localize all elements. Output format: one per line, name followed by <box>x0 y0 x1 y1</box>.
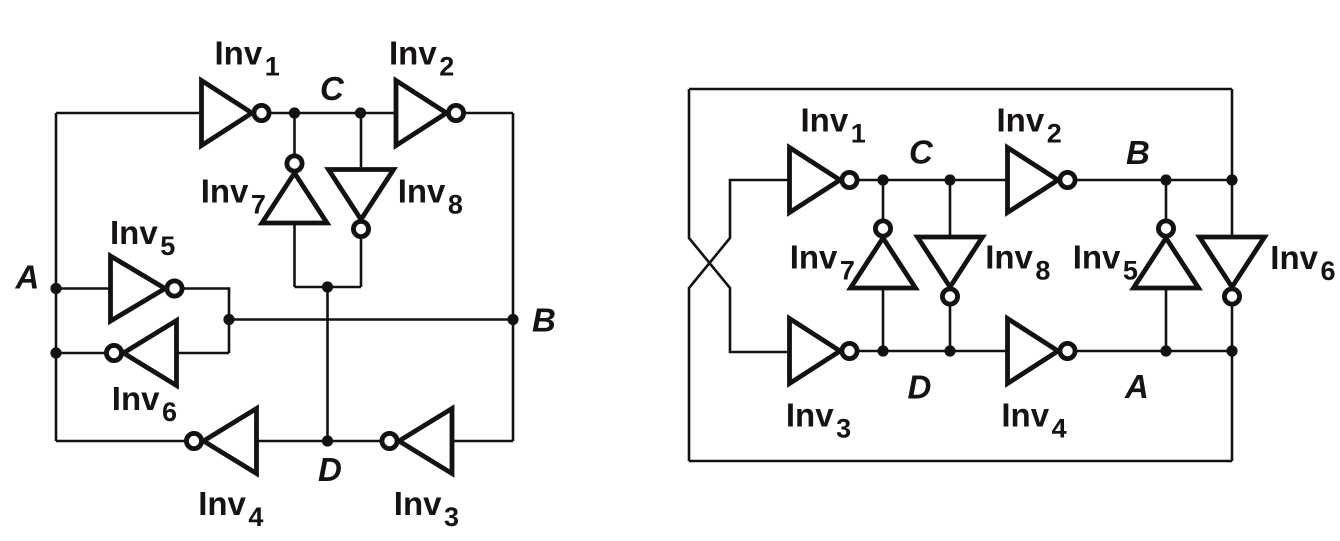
inverter Inv6 (leftward, bubble on left) <box>106 321 176 386</box>
wire: Inv7 base down to connector <box>293 223 296 287</box>
wire: right edge upper segment (B) <box>1231 89 1234 180</box>
wire: node C rail (Inv1 out to Inv2 in) <box>859 179 1008 182</box>
inverter Inv6 (right circuit, downward) <box>1200 237 1265 304</box>
node C junction dot (to Inv7) <box>289 107 300 118</box>
node A junction dot <box>50 283 61 294</box>
wire: Inv5 bubble up to node B rail <box>1165 180 1168 219</box>
wire: node A rail (Inv4 out to right edge) <box>1077 350 1232 353</box>
node A junction dot (right edge) <box>1226 345 1237 356</box>
wire: node C segment from Inv1 output to Inv2 input <box>271 112 396 115</box>
node B junction dot (right edge) <box>1226 174 1237 185</box>
wire: right vertical rail (node B net down to Inv3 input) <box>512 113 515 441</box>
node C junction dot (to Inv8) <box>355 107 366 118</box>
wire: Inv5 output over and down to node B wire <box>184 289 230 354</box>
svg-text:A: A <box>1124 368 1149 405</box>
inverter Inv1 (right circuit) <box>790 148 858 213</box>
svg-text:A: A <box>15 259 40 296</box>
junction dot on left rail at Inv6 output <box>50 347 61 358</box>
wire: Inv2 output to right rail <box>465 112 513 115</box>
wire: node C down to Inv8 base <box>360 113 363 170</box>
inverter Inv2 (right circuit) <box>1008 148 1076 213</box>
wire: Inv8 bubble down to connector <box>360 239 363 288</box>
node B junction dot (to Inv5) <box>1160 174 1171 185</box>
svg-text:D: D <box>908 369 932 406</box>
wire: node C down to Inv7 bubble <box>293 113 296 155</box>
inverter Inv7 (upward, input bubble on top) <box>262 156 327 223</box>
wire: node B horizontal run <box>229 318 513 321</box>
node D junction dot <box>322 435 333 446</box>
junction dot on connector (node D tap) <box>322 281 333 292</box>
wire: Inv7 base down to node D rail <box>882 288 885 351</box>
inverter Inv5 <box>111 256 183 321</box>
wire: bottom rail Inv4 input to node D <box>257 440 381 443</box>
inverter Inv8 (downward, output bubble at bottom) <box>329 170 394 237</box>
wire: node A to Inv5 input <box>56 287 111 290</box>
inverter Inv4 (right circuit) <box>1008 319 1076 384</box>
inverter Inv3 (leftward, bubble on left) <box>382 409 452 474</box>
wire: node B down to Inv6 base (right edge) <box>1231 180 1234 237</box>
wire: bottom rail from left rail to Inv4 bubble <box>56 440 185 443</box>
svg-text:D: D <box>318 451 342 488</box>
svg-text:B: B <box>532 302 556 339</box>
inverter Inv3 (right circuit) <box>790 319 858 384</box>
wire: connector joining Inv7 and Inv8 bottoms <box>295 286 362 289</box>
inverter Inv1 <box>202 81 270 146</box>
wire: Inv6 bubble down to node A rail <box>1231 306 1234 351</box>
inverter Inv4 (leftward, bubble on left) <box>186 409 256 474</box>
wire: outer box top edge (node B wrap-around) <box>689 88 1232 91</box>
node D junction dot (to Inv7) <box>877 345 888 356</box>
wire: left vertical rail (node A net, left circuit) <box>55 113 58 441</box>
wire: outer box bottom edge (node A wrap-around) <box>689 460 1232 463</box>
wire: node C down to Inv7 bubble <box>882 180 885 219</box>
wire: node A up to Inv5 input <box>1165 288 1168 351</box>
inverter Inv5 (right circuit, upward) <box>1134 221 1199 288</box>
wire: Inv8 bubble down to node D rail <box>949 306 952 351</box>
wire: left edge upper segment (B path) with crossover diagonal <box>689 89 790 352</box>
wire: top rail into Inv1 input <box>56 112 202 115</box>
node C junction dot (to Inv8) <box>944 174 955 185</box>
inverter Inv8 (right circuit, downward) <box>918 237 983 304</box>
svg-text:B: B <box>1126 134 1150 171</box>
wire: Inv6 output bubble to left rail <box>56 352 105 355</box>
inverter Inv7 (right circuit, upward) <box>851 221 916 288</box>
wire: right edge lower segment (A) <box>1231 351 1234 461</box>
inverter Inv2 <box>396 81 464 146</box>
node D junction dot (to Inv8) <box>944 345 955 356</box>
wire: Inv3 input from right rail <box>452 440 513 443</box>
wire: node C down to Inv8 base <box>949 180 952 237</box>
wire: node B rail (Inv2 out to right edge) <box>1077 179 1232 182</box>
wire: connector down to node D on bottom rail <box>326 287 329 441</box>
svg-text:C: C <box>909 134 934 171</box>
wire: node D rail (Inv3 out to Inv4 in) <box>859 350 1008 353</box>
node C junction dot (to Inv7) <box>877 174 888 185</box>
wire: Inv6 input from B-wire corner <box>177 352 230 355</box>
junction dot Inv5 output / node B wire <box>223 314 234 325</box>
svg-text:C: C <box>320 70 345 107</box>
node A junction dot (to Inv5) <box>1160 345 1171 356</box>
node B junction dot on right rail <box>507 314 518 325</box>
wire: left edge lower segment (A path) with crossover diagonal <box>689 180 790 461</box>
